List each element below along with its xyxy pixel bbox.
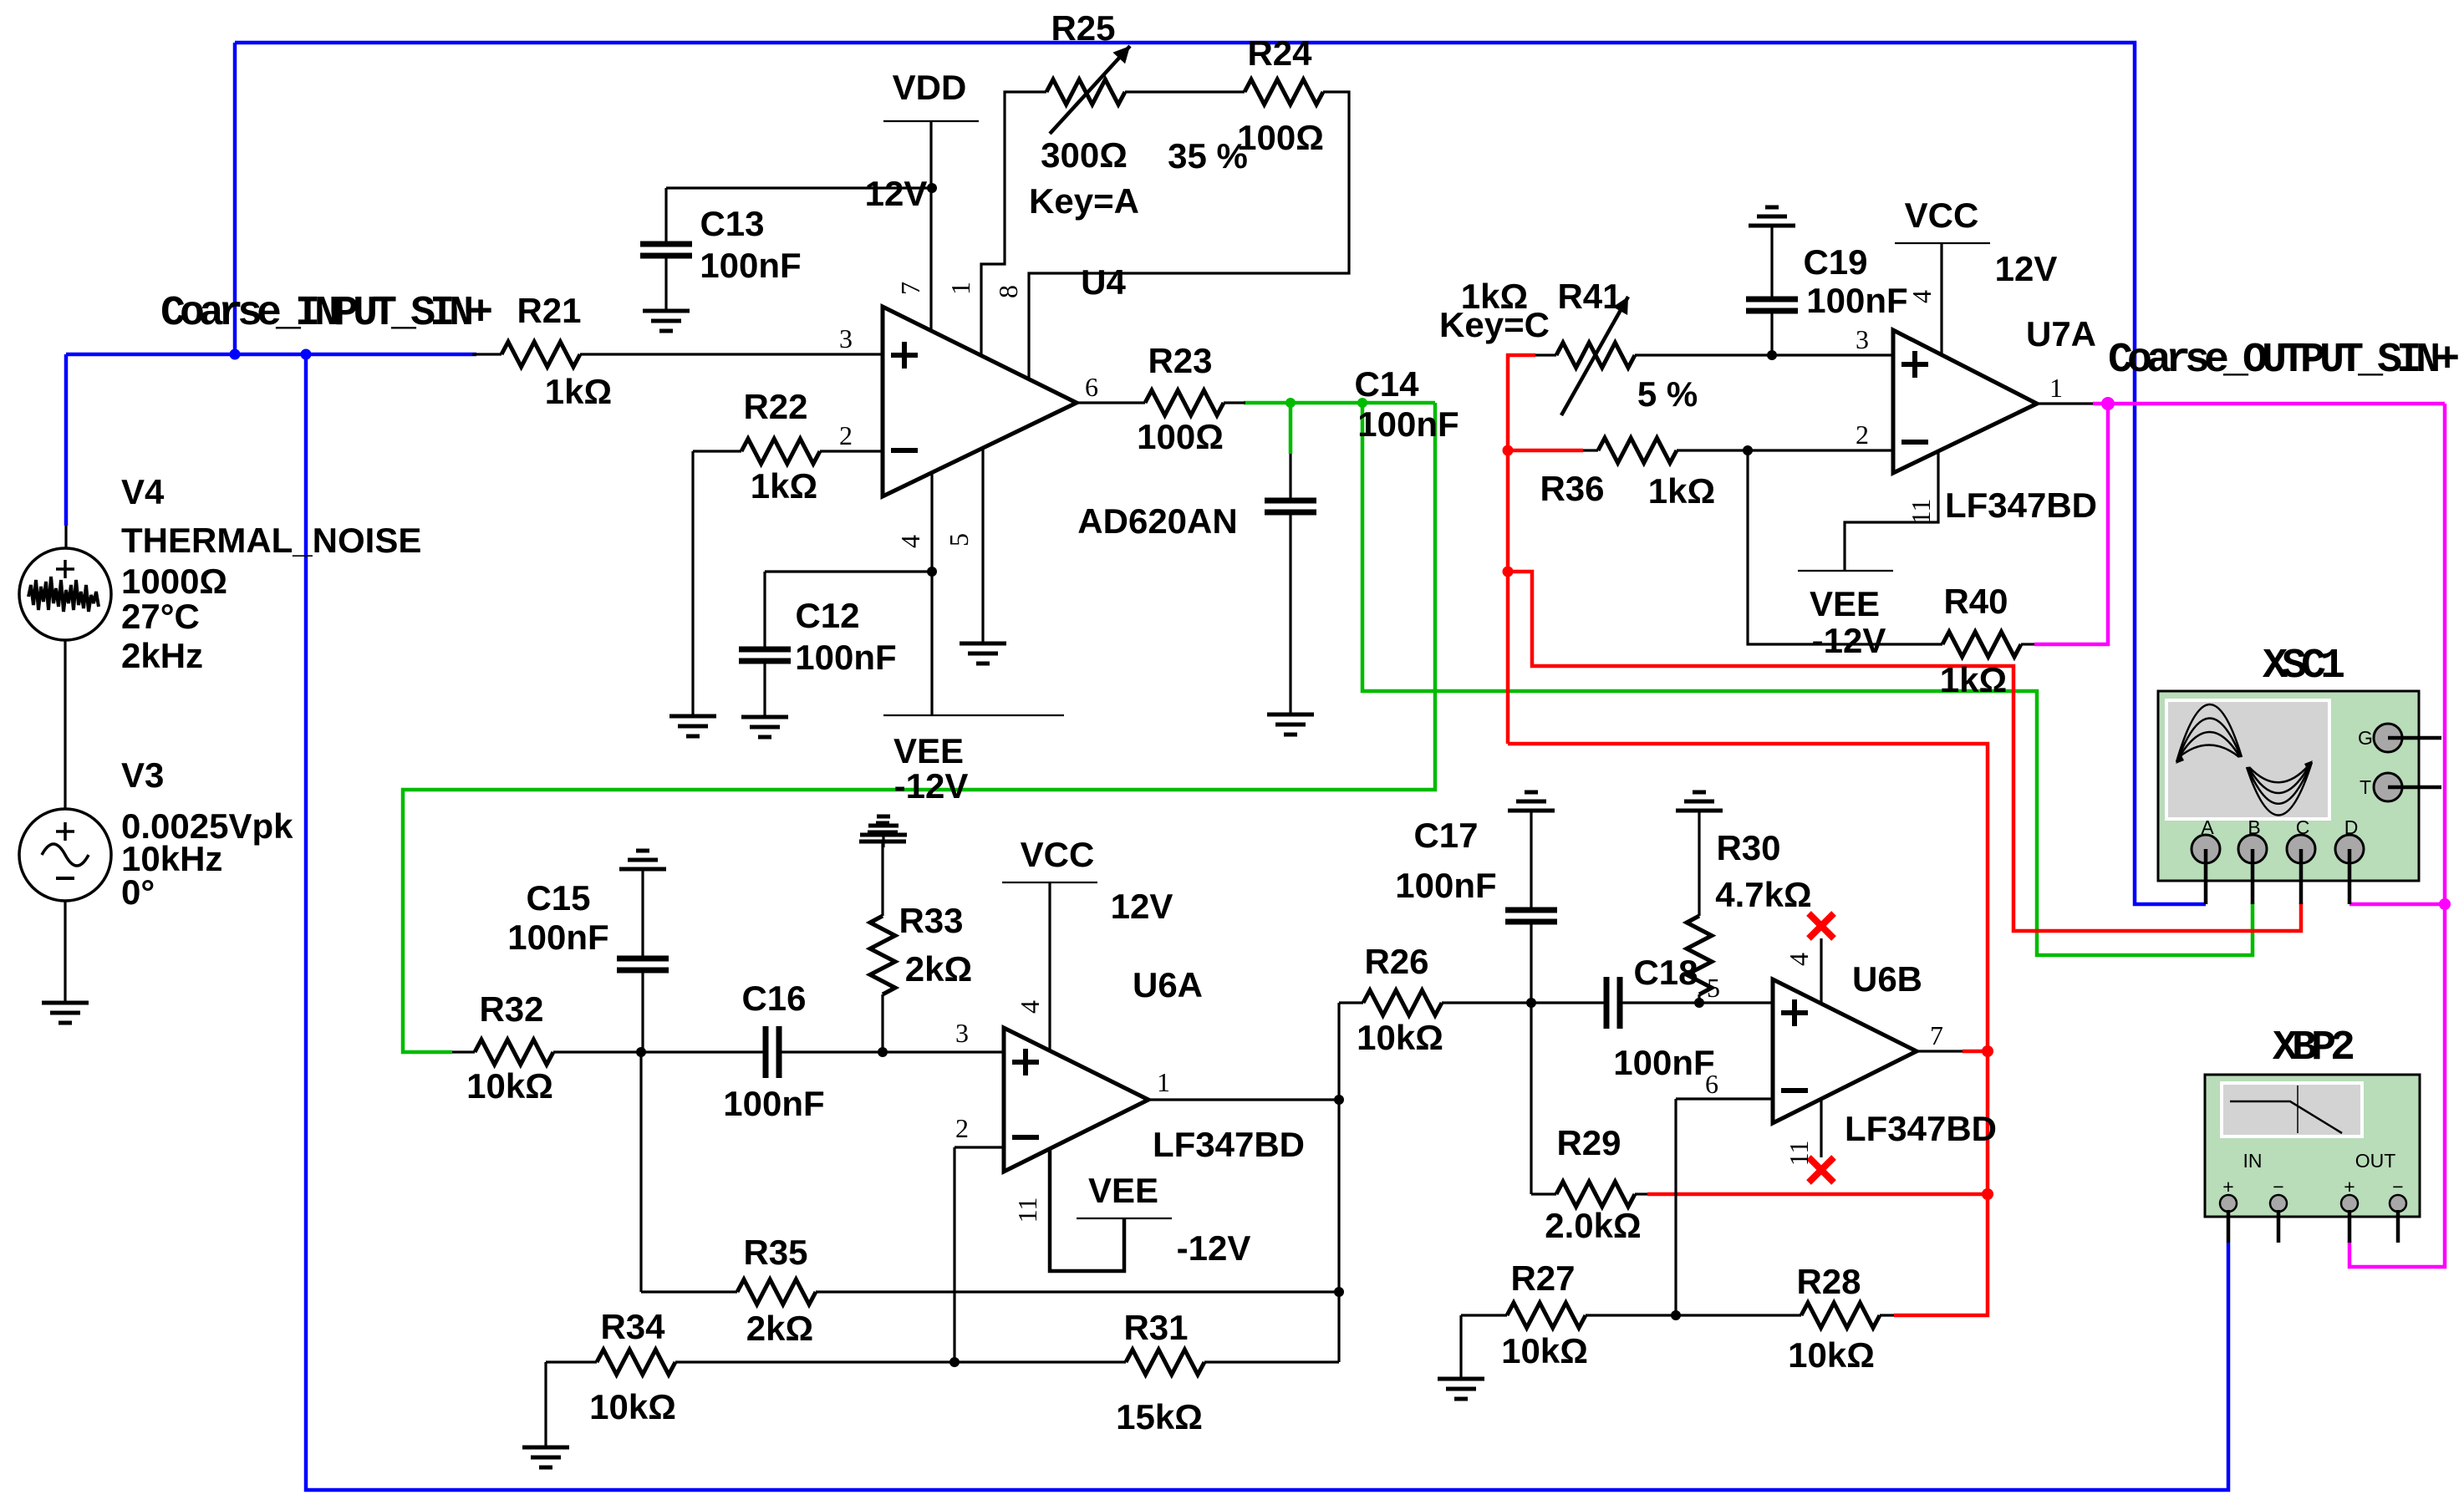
svg-text:12V: 12V [1111,887,1173,926]
svg-text:1kΩ: 1kΩ [1648,471,1715,511]
svg-text:2.0kΩ: 2.0kΩ [1545,1206,1641,1245]
svg-text:U6B: U6B [1852,959,1922,999]
svg-text:R26: R26 [1364,942,1428,981]
svg-text:11: 11 [1784,1141,1814,1167]
svg-text:1000Ω: 1000Ω [121,562,227,601]
svg-text:LF347BD: LF347BD [1153,1125,1305,1164]
svg-text:VEE: VEE [1810,584,1880,623]
svg-text:6: 6 [1085,372,1098,402]
svg-text:5: 5 [944,533,974,547]
svg-text:C13: C13 [700,204,764,243]
svg-text:R24: R24 [1247,33,1312,73]
svg-text:2: 2 [1856,419,1869,450]
svg-text:C14: C14 [1354,364,1419,404]
svg-text:VDD: VDD [893,68,967,107]
svg-text:8: 8 [993,285,1023,298]
svg-text:Key=A: Key=A [1029,181,1139,221]
svg-text:3: 3 [1856,324,1869,354]
svg-text:10kΩ: 10kΩ [589,1387,676,1426]
svg-text:10kΩ: 10kΩ [1788,1335,1875,1375]
svg-text:R25: R25 [1051,8,1115,48]
svg-text:VEE: VEE [893,731,964,770]
svg-text:XBP2: XBP2 [2273,1025,2354,1072]
svg-text:100nF: 100nF [795,638,896,677]
svg-text:2: 2 [955,1113,969,1143]
svg-text:12V: 12V [1995,249,2058,288]
svg-text:1: 1 [2049,373,2063,403]
svg-text:VCC: VCC [1021,835,1095,874]
svg-text:C12: C12 [795,596,859,635]
svg-text:-12V: -12V [1812,621,1886,660]
svg-text:U4: U4 [1081,262,1126,302]
svg-text:XSC1: XSC1 [2263,643,2344,690]
svg-text:R27: R27 [1510,1258,1575,1298]
svg-text:4: 4 [895,535,925,548]
svg-text:3: 3 [839,323,853,353]
svg-text:R28: R28 [1796,1262,1861,1301]
svg-text:10kΩ: 10kΩ [1501,1331,1588,1370]
svg-text:3: 3 [955,1018,969,1048]
svg-text:G: G [2358,727,2373,749]
svg-text:100nF: 100nF [1806,281,1907,320]
svg-text:VEE: VEE [1088,1171,1158,1210]
svg-text:C19: C19 [1803,242,1867,282]
svg-text:2kΩ: 2kΩ [905,949,972,989]
svg-text:100Ω: 100Ω [1137,417,1224,456]
svg-text:2kΩ: 2kΩ [746,1309,813,1348]
svg-text:R31: R31 [1123,1308,1188,1347]
svg-text:Key=C: Key=C [1439,305,1550,344]
svg-text:2kHz: 2kHz [121,636,203,675]
svg-text:10kΩ: 10kΩ [1357,1018,1443,1057]
svg-text:2: 2 [839,420,853,450]
svg-text:-12V: -12V [1177,1228,1251,1268]
svg-text:R36: R36 [1540,469,1604,508]
svg-text:100nF: 100nF [1395,866,1496,905]
svg-text:U6A: U6A [1133,965,1203,1004]
svg-text:4: 4 [1784,953,1814,966]
svg-text:100nF: 100nF [723,1084,824,1123]
svg-text:D: D [2344,816,2359,838]
svg-text:A: A [2201,816,2214,838]
svg-text:7: 7 [895,282,925,295]
svg-text:1: 1 [1157,1067,1170,1097]
svg-text:R22: R22 [743,387,807,426]
svg-text:R40: R40 [1943,582,2008,621]
svg-text:27°C: 27°C [121,597,200,636]
svg-text:T: T [2360,776,2371,798]
svg-text:10kΩ: 10kΩ [466,1066,553,1106]
svg-text:100nF: 100nF [700,246,801,285]
svg-text:1kΩ: 1kΩ [545,372,612,411]
svg-text:35 %: 35 % [1168,136,1248,175]
svg-text:THERMAL_NOISE: THERMAL_NOISE [121,521,421,560]
svg-text:5: 5 [1707,973,1720,1003]
svg-text:300Ω: 300Ω [1041,135,1128,175]
svg-text:AD620AN: AD620AN [1077,501,1237,541]
svg-text:5 %: 5 % [1637,374,1698,414]
svg-text:R35: R35 [743,1233,807,1272]
svg-text:LF347BD: LF347BD [1845,1109,1997,1148]
svg-text:-12V: -12V [894,766,969,806]
svg-text:R23: R23 [1148,341,1212,380]
svg-text:11: 11 [1012,1197,1042,1223]
svg-text:6: 6 [1705,1069,1718,1099]
svg-text:R32: R32 [479,989,543,1029]
svg-text:1kΩ: 1kΩ [1940,660,2007,699]
svg-text:Coarse_OUTPUT_SIN+: Coarse_OUTPUT_SIN+ [2108,337,2458,384]
svg-text:C17: C17 [1413,816,1478,855]
svg-text:B: B [2248,816,2260,838]
svg-text:0°: 0° [121,872,155,912]
svg-text:100nF: 100nF [507,918,608,957]
svg-text:4: 4 [1907,290,1937,303]
svg-text:R33: R33 [899,901,963,940]
svg-text:4.7kΩ: 4.7kΩ [1715,875,1811,914]
svg-text:U7A: U7A [2026,314,2096,353]
svg-text:100nF: 100nF [1613,1043,1714,1082]
svg-text:15kΩ: 15kΩ [1116,1397,1203,1436]
svg-text:IN: IN [2243,1150,2263,1172]
svg-text:C18: C18 [1633,953,1698,992]
svg-text:C16: C16 [741,979,806,1018]
svg-text:R29: R29 [1556,1123,1621,1162]
svg-text:1: 1 [945,282,975,295]
svg-text:V3: V3 [121,755,164,795]
svg-text:R41: R41 [1557,277,1621,316]
svg-text:Coarse_INPUT_SIN+: Coarse_INPUT_SIN+ [160,290,491,338]
svg-text:4: 4 [1015,1000,1045,1014]
svg-text:12V: 12V [865,174,928,213]
svg-text:1kΩ: 1kΩ [751,466,817,506]
svg-text:C15: C15 [526,878,590,918]
svg-text:R34: R34 [600,1307,665,1346]
svg-text:OUT: OUT [2355,1150,2396,1172]
svg-text:C: C [2296,816,2310,838]
svg-text:R21: R21 [517,291,581,330]
svg-text:R30: R30 [1716,828,1780,867]
svg-text:100nF: 100nF [1357,404,1459,444]
svg-text:LF347BD: LF347BD [1945,486,2097,525]
svg-text:100Ω: 100Ω [1237,118,1324,157]
svg-text:11: 11 [1906,499,1936,525]
svg-text:7: 7 [1930,1020,1943,1050]
svg-text:V4: V4 [121,472,165,511]
svg-text:VCC: VCC [1905,196,1979,235]
